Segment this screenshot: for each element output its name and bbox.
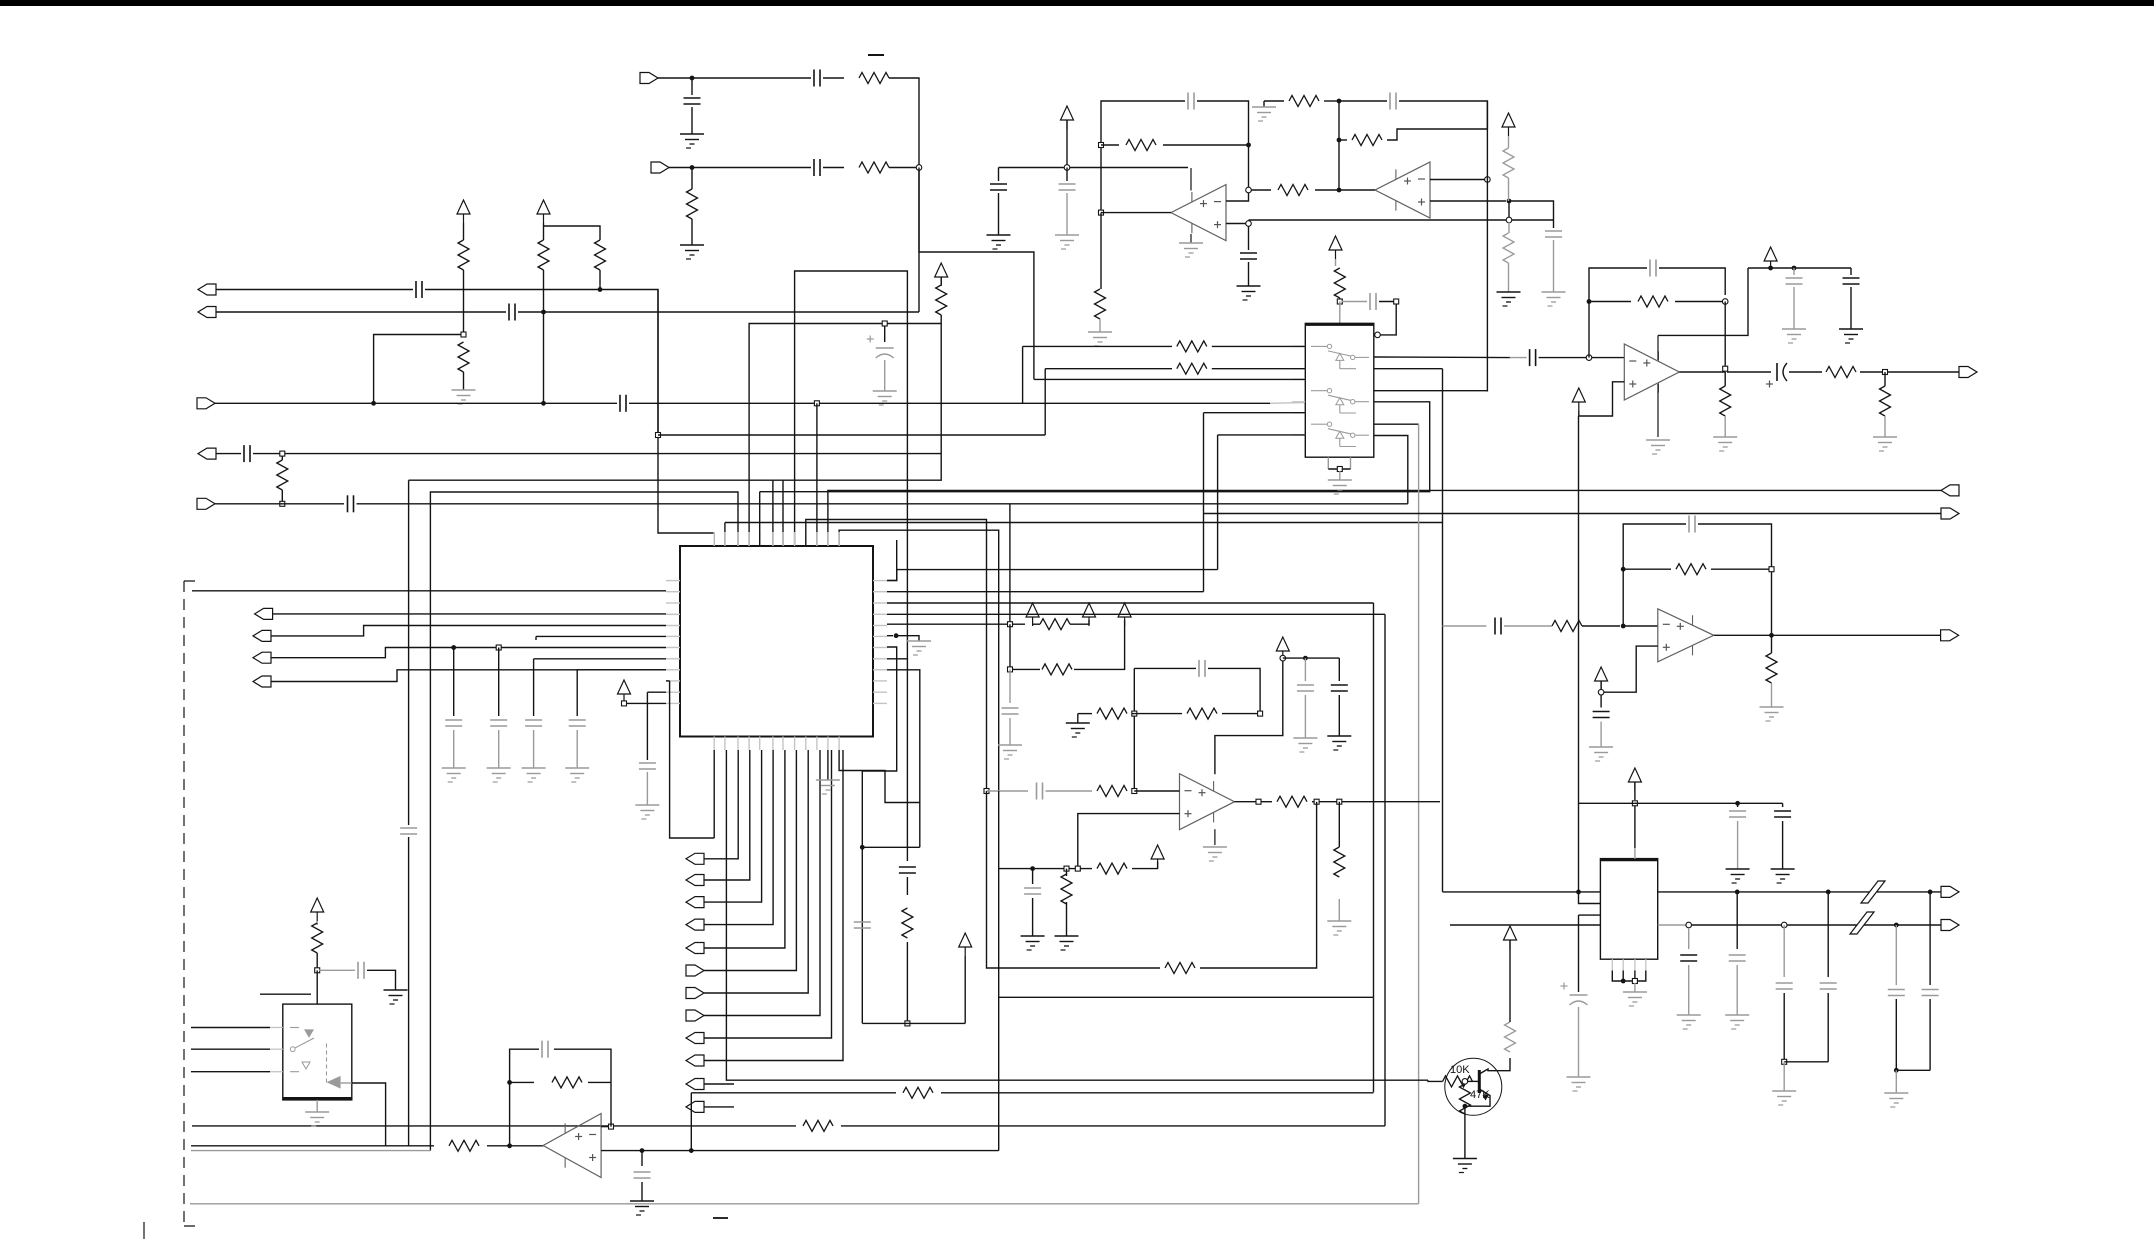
wire	[1793, 287, 1795, 329]
junction	[1826, 890, 1831, 895]
wire to U5	[1374, 356, 1510, 359]
wire	[1508, 201, 1510, 220]
wire	[704, 750, 796, 971]
wire	[998, 791, 1000, 1151]
junction	[640, 1148, 645, 1153]
wire	[1373, 997, 1375, 1092]
junction	[1075, 866, 1080, 871]
IC left pin stubs	[666, 580, 680, 582]
ground	[1055, 936, 1079, 950]
wire	[657, 290, 659, 436]
wire	[1784, 1061, 1828, 1063]
junction	[1621, 979, 1626, 984]
wire	[1074, 620, 1125, 669]
wire	[658, 77, 811, 79]
wire pin1	[713, 750, 715, 838]
resistor R30	[1061, 874, 1072, 904]
junction	[1722, 299, 1728, 305]
wire	[1339, 471, 1341, 480]
capacitor C21	[1545, 230, 1562, 232]
capacitor C7	[243, 445, 245, 462]
wire	[1612, 971, 1646, 982]
resistor R24	[1097, 708, 1127, 719]
junction	[496, 645, 501, 650]
wire	[1066, 168, 1068, 182]
junction	[690, 165, 695, 170]
wire from boundary	[192, 590, 666, 592]
wire	[352, 1083, 386, 1146]
wire	[1464, 1106, 1466, 1158]
wire	[1226, 223, 1249, 225]
ground	[1713, 437, 1737, 451]
ground	[907, 641, 931, 655]
wire	[1771, 683, 1773, 707]
wire	[887, 323, 941, 325]
capacitor C31	[1297, 684, 1314, 686]
ground	[1726, 869, 1750, 883]
ground	[1542, 292, 1566, 306]
junction	[1099, 143, 1104, 148]
junction	[1507, 199, 1512, 204]
wire	[1217, 435, 1219, 570]
junction	[1485, 177, 1491, 183]
wire	[1698, 524, 1772, 635]
junction	[1769, 633, 1774, 638]
resistor R10	[1126, 140, 1156, 151]
IC bottom pin stubs	[713, 737, 715, 751]
wire	[1077, 714, 1079, 723]
wire	[691, 107, 693, 134]
wire	[576, 670, 578, 716]
port OUT2	[1941, 485, 1959, 496]
ground	[1567, 1077, 1591, 1091]
power VCC	[1118, 603, 1131, 617]
capacitor C27 polarized	[1776, 363, 1778, 381]
wire	[498, 730, 500, 768]
port P21	[686, 1079, 704, 1090]
wire	[1578, 925, 1580, 992]
wire	[823, 167, 844, 169]
wire	[887, 623, 1007, 625]
wire	[1443, 891, 1579, 893]
svg-text:10K: 10K	[1450, 1064, 1470, 1076]
junction	[689, 1148, 694, 1153]
wire	[409, 479, 773, 481]
capacitor C35	[899, 866, 916, 868]
wire	[1100, 213, 1102, 289]
wire	[253, 453, 280, 455]
power VCC	[1572, 388, 1585, 402]
port P12	[686, 875, 704, 886]
wire	[691, 1092, 896, 1094]
wire	[1789, 371, 1822, 373]
junction	[1337, 188, 1342, 193]
wire	[1304, 658, 1306, 681]
wire	[987, 791, 1161, 968]
power VCC	[1628, 768, 1641, 782]
slash bus marker	[1861, 881, 1885, 903]
wire	[691, 1150, 998, 1152]
power VCC	[1504, 926, 1517, 940]
capacitor C16	[1187, 93, 1189, 110]
wire	[641, 1151, 643, 1166]
capacitor C48	[1494, 618, 1496, 635]
junction	[1598, 689, 1604, 695]
wire	[1338, 695, 1340, 736]
junction	[1337, 138, 1342, 143]
junction	[507, 1143, 512, 1148]
wire	[1895, 925, 1897, 985]
ground	[565, 768, 589, 782]
junction	[1587, 299, 1592, 304]
wire	[1623, 524, 1686, 626]
wire	[1324, 100, 1339, 102]
ground	[1021, 936, 1045, 950]
power VCC	[1276, 637, 1289, 651]
wire	[647, 691, 666, 693]
capacitor C20	[1389, 93, 1391, 110]
wire	[1588, 295, 1590, 358]
resistor R35	[312, 923, 323, 953]
wire	[271, 670, 666, 682]
junction	[1586, 355, 1592, 361]
capacitor C22	[1369, 293, 1371, 310]
wire	[1248, 262, 1250, 286]
wire	[889, 167, 916, 169]
wire	[1782, 803, 1784, 807]
wire	[316, 921, 318, 925]
wire	[1579, 914, 1601, 916]
wire	[1510, 357, 1527, 359]
resistor R2	[859, 162, 889, 173]
ground	[1873, 437, 1897, 451]
resistor R40	[1552, 621, 1582, 632]
resistor R7	[595, 240, 606, 270]
power VCC	[1083, 603, 1096, 617]
resistor R11	[1278, 185, 1308, 196]
wire	[1479, 1058, 1510, 1074]
wire long to port	[828, 490, 1941, 546]
capacitor C24	[1649, 260, 1651, 277]
ground	[442, 768, 466, 782]
wire	[534, 658, 666, 660]
wire	[1634, 848, 1636, 859]
wire	[691, 78, 693, 95]
wire	[1132, 862, 1158, 869]
wire	[646, 692, 648, 760]
junction	[882, 321, 887, 326]
wire	[773, 315, 941, 480]
capacitor C8	[347, 495, 349, 512]
port OUTD	[255, 608, 273, 619]
ground	[635, 805, 659, 819]
wire	[1066, 869, 1068, 876]
dash label mark	[260, 993, 311, 995]
wire	[760, 402, 1430, 492]
wire	[1066, 193, 1068, 235]
switch element 2	[1311, 390, 1327, 392]
wire	[704, 750, 785, 948]
wire row1	[1658, 891, 1942, 893]
capacitor C42	[1922, 989, 1939, 991]
svg-text:47K: 47K	[1470, 1089, 1490, 1101]
capacitor C3	[813, 159, 815, 176]
port P18	[686, 1010, 704, 1021]
wire long to switch	[658, 434, 1045, 436]
wire	[998, 193, 1000, 235]
junction	[1008, 667, 1013, 672]
wire	[1338, 802, 1340, 847]
opto/relay box U8	[283, 1004, 352, 1100]
wire	[1579, 892, 1601, 904]
port OUTB	[198, 307, 216, 318]
junction	[1686, 922, 1692, 928]
wire	[1034, 378, 1305, 380]
wire	[576, 730, 578, 768]
wire	[1430, 179, 1487, 181]
wire	[1070, 620, 1089, 624]
wire	[1012, 668, 1040, 670]
capacitor C41	[1888, 989, 1905, 991]
ground	[987, 235, 1011, 249]
wire	[1634, 782, 1636, 800]
port OUT1	[1959, 367, 1977, 378]
wire	[1539, 357, 1586, 359]
wire	[1374, 423, 1419, 425]
wire	[1782, 821, 1784, 869]
junction	[905, 1021, 910, 1026]
wire	[1430, 200, 1506, 202]
capacitor C32	[1331, 684, 1348, 686]
capacitor C49	[1688, 516, 1690, 533]
capacitor C13	[490, 719, 507, 721]
wire	[191, 1150, 430, 1152]
wire	[1338, 101, 1340, 190]
resistor R37	[552, 1077, 582, 1088]
wire	[704, 750, 843, 1061]
capacitor C1	[813, 70, 815, 87]
wire	[1600, 681, 1602, 689]
wire	[887, 570, 897, 581]
wire	[987, 790, 1029, 792]
wire	[641, 1182, 643, 1201]
wire	[1623, 568, 1671, 570]
junction	[1781, 922, 1787, 928]
wire	[1675, 301, 1725, 303]
wire	[691, 219, 693, 245]
wire	[281, 456, 283, 460]
decoupling cap columns	[1688, 928, 1690, 949]
junction	[1337, 99, 1342, 104]
capacitor C17	[1240, 252, 1257, 254]
wire	[1714, 634, 1942, 636]
capacitor C28	[1002, 707, 1019, 709]
wire	[1579, 802, 1635, 804]
junction	[916, 165, 922, 171]
wire	[887, 540, 897, 581]
ground	[630, 1201, 654, 1215]
power VCC	[1026, 603, 1039, 617]
wire	[1283, 657, 1340, 659]
wire	[887, 670, 920, 848]
capacitor C18	[990, 183, 1007, 185]
junction	[814, 401, 819, 406]
resistor R42	[1766, 653, 1777, 683]
wire	[216, 311, 506, 313]
power VCC	[1151, 845, 1164, 859]
junction	[1337, 299, 1342, 304]
wire	[1508, 222, 1510, 233]
wire	[533, 730, 535, 768]
junction	[1768, 266, 1773, 271]
resistor R29	[1097, 863, 1127, 874]
wire	[215, 402, 617, 404]
wire	[1101, 144, 1119, 146]
wire	[1579, 891, 1601, 893]
resistor R33	[902, 908, 913, 938]
wire	[215, 503, 344, 505]
ground	[1327, 736, 1351, 750]
resistor R1	[859, 73, 889, 84]
wire	[964, 956, 966, 1023]
resistor 10K	[1443, 1076, 1473, 1087]
bubble enable	[1375, 332, 1381, 338]
resistor R12	[1289, 96, 1319, 107]
junction	[1506, 217, 1512, 223]
wire	[1066, 120, 1068, 165]
wire	[1737, 803, 1739, 807]
junction	[1632, 979, 1637, 984]
wire	[1399, 101, 1487, 129]
capacitor C19	[1059, 183, 1076, 185]
wire	[1263, 101, 1265, 107]
wire	[1727, 371, 1771, 373]
wire	[1634, 971, 1636, 982]
wire	[463, 372, 465, 390]
capacitor C44	[1774, 810, 1791, 812]
wire	[1711, 568, 1772, 570]
port P16	[686, 965, 704, 976]
capacitor C4	[415, 281, 417, 298]
capacitor C2	[684, 97, 701, 99]
port IN5	[197, 498, 215, 509]
wire	[806, 520, 987, 792]
wire	[357, 503, 1408, 505]
dashed boundary left	[184, 581, 196, 1226]
wire	[1589, 301, 1631, 303]
wire	[1748, 267, 1851, 269]
wire	[862, 647, 896, 771]
capacitor C36 polarized	[1570, 994, 1588, 996]
resistor R31	[903, 1087, 933, 1098]
wire	[1078, 814, 1180, 869]
ground	[1293, 738, 1317, 752]
wire	[1261, 801, 1272, 803]
ground	[873, 391, 897, 405]
capacitor C12	[445, 719, 462, 721]
wire	[1634, 803, 1636, 848]
wire	[772, 480, 774, 546]
wire	[862, 1022, 965, 1024]
wire	[1312, 801, 1440, 803]
junction	[1337, 467, 1342, 472]
resistor R4	[458, 240, 469, 270]
wire	[1509, 940, 1511, 1022]
wire	[624, 702, 666, 704]
ground	[1782, 329, 1806, 343]
wire	[941, 1092, 1374, 1094]
wire	[577, 669, 666, 671]
resistor R6	[538, 240, 549, 270]
wire	[271, 626, 666, 636]
ground	[680, 134, 704, 148]
ground	[680, 245, 704, 259]
capacitor C26	[1843, 277, 1860, 279]
wire	[1929, 892, 1931, 985]
wire	[1929, 999, 1931, 1070]
port OUTF	[253, 652, 271, 663]
wire	[498, 648, 500, 717]
slash bus marker	[1850, 912, 1874, 934]
capacitor C33	[1024, 887, 1041, 889]
port OUT4	[1941, 886, 1959, 897]
junction	[984, 789, 989, 794]
wire	[599, 270, 601, 290]
resistor R9	[936, 285, 947, 315]
wire	[1009, 624, 1011, 669]
wire	[1163, 144, 1249, 146]
op-amp U5	[1624, 344, 1679, 400]
wire	[1377, 302, 1396, 335]
resistor R23	[1187, 708, 1217, 719]
wire	[669, 167, 811, 169]
power VCC	[618, 680, 631, 694]
junction	[622, 701, 627, 706]
wire	[1200, 802, 1317, 968]
wire	[1467, 1089, 1490, 1106]
wire	[1046, 790, 1093, 792]
wire	[1235, 801, 1257, 803]
ground	[1237, 286, 1261, 300]
top border bar	[0, 0, 2154, 6]
junction	[1632, 801, 1637, 806]
port OUT6	[1941, 630, 1959, 641]
wire	[1009, 669, 1011, 703]
junction	[690, 76, 695, 81]
ground	[998, 745, 1022, 759]
port P22	[686, 1101, 704, 1112]
port IN1	[640, 73, 658, 84]
wire	[1579, 382, 1625, 416]
wire	[862, 846, 920, 848]
wire	[1066, 902, 1068, 936]
power VCC	[537, 200, 550, 214]
wire	[1622, 971, 1624, 982]
junction	[1735, 801, 1740, 806]
wire	[281, 490, 283, 501]
wire	[1582, 625, 1620, 627]
junction	[1723, 366, 1728, 371]
wire	[1203, 413, 1205, 592]
wire	[1339, 302, 1341, 324]
junction	[451, 645, 456, 650]
wire	[272, 613, 666, 615]
bottom dashes	[713, 1217, 728, 1219]
wire pin	[713, 533, 715, 546]
wire	[487, 1145, 543, 1147]
power VCC	[1329, 236, 1342, 250]
junction	[1337, 799, 1342, 804]
